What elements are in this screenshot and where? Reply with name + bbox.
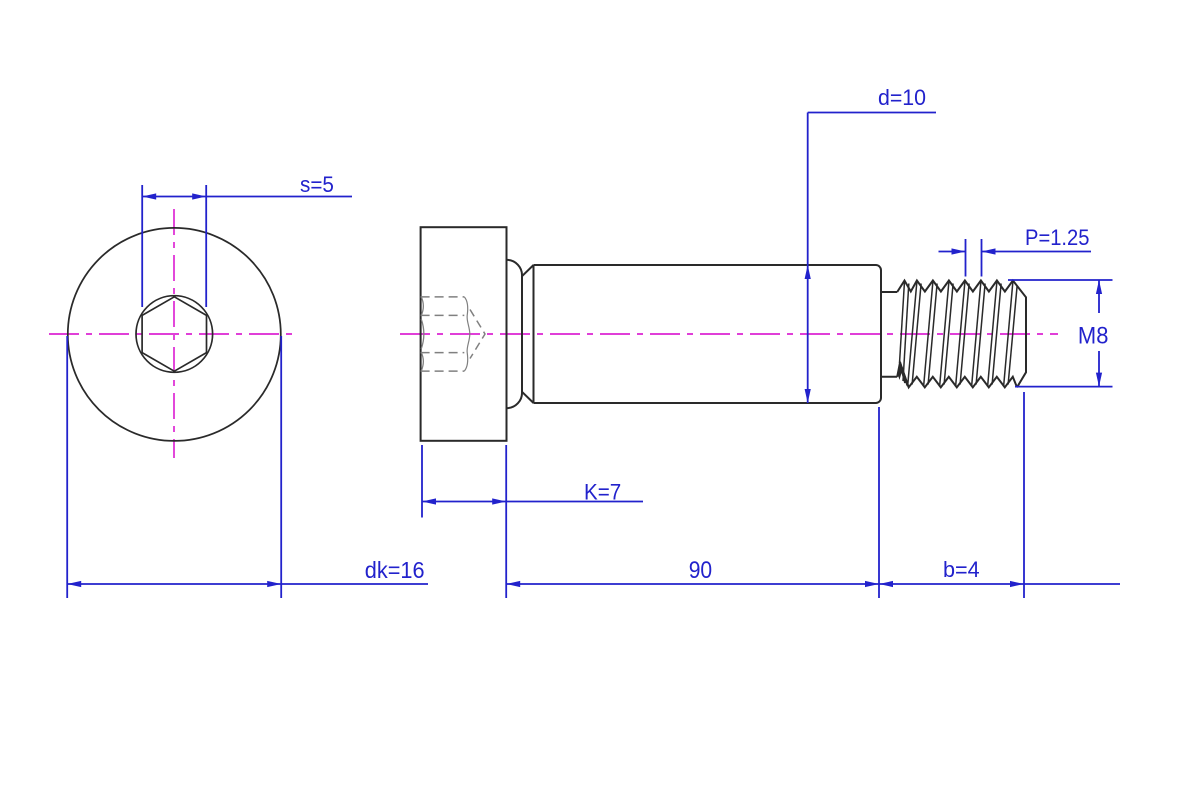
svg-text:b=4: b=4 bbox=[943, 557, 980, 583]
svg-text:90: 90 bbox=[689, 557, 712, 583]
svg-text:P=1.25: P=1.25 bbox=[1025, 226, 1089, 250]
svg-text:d=10: d=10 bbox=[878, 85, 926, 110]
svg-text:dk=16: dk=16 bbox=[365, 557, 425, 583]
svg-text:M8: M8 bbox=[1078, 321, 1109, 348]
svg-text:K=7: K=7 bbox=[584, 480, 621, 505]
svg-text:s=5: s=5 bbox=[300, 171, 334, 197]
